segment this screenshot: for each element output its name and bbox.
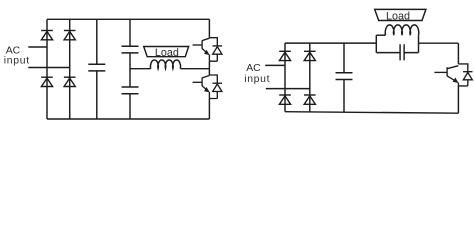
svg-text:Load: Load bbox=[155, 47, 179, 59]
svg-text:input: input bbox=[244, 74, 270, 85]
svg-text:AC: AC bbox=[246, 63, 261, 74]
svg-text:Load: Load bbox=[386, 11, 410, 23]
svg-text:input: input bbox=[4, 55, 30, 66]
